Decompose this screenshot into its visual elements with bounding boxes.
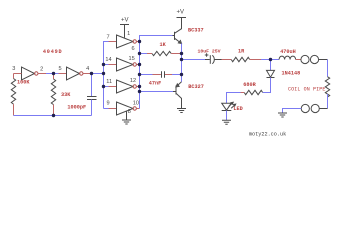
svg-text:+V: +V (121, 18, 129, 24)
svg-text:BC327: BC327 (188, 84, 204, 90)
svg-text:4049D: 4049D (43, 49, 63, 55)
svg-text:680R: 680R (243, 82, 256, 88)
svg-text:6: 6 (131, 46, 134, 52)
svg-text:BC337: BC337 (188, 28, 204, 34)
svg-text:10: 10 (133, 100, 139, 106)
svg-text:8: 8 (128, 109, 131, 115)
svg-text:10uF 25V: 10uF 25V (198, 48, 221, 54)
svg-text:1R: 1R (238, 48, 245, 54)
svg-text:LED: LED (233, 106, 242, 112)
svg-text:1K: 1K (160, 42, 167, 48)
svg-text:11: 11 (106, 79, 112, 85)
svg-text:5: 5 (58, 66, 61, 72)
svg-text:+V: +V (177, 10, 185, 16)
svg-text:1000pF: 1000pF (67, 105, 86, 111)
svg-text:4: 4 (86, 66, 89, 72)
svg-text:33K: 33K (61, 92, 71, 98)
svg-text:2: 2 (40, 66, 43, 72)
svg-text:3: 3 (12, 66, 15, 72)
svg-text:moty22.co.uk: moty22.co.uk (249, 131, 286, 137)
svg-text:100K: 100K (17, 80, 30, 86)
svg-text:470uH: 470uH (280, 49, 296, 55)
svg-text:15: 15 (128, 56, 134, 62)
svg-text:COIL ON PIPE: COIL ON PIPE (288, 87, 325, 93)
svg-text:1: 1 (127, 31, 130, 37)
svg-text:7: 7 (106, 34, 109, 40)
svg-text:47nF: 47nF (149, 81, 161, 87)
svg-text:12: 12 (130, 78, 136, 84)
svg-text:1N4148: 1N4148 (282, 71, 301, 77)
svg-text:9: 9 (106, 101, 109, 107)
svg-text:14: 14 (105, 57, 111, 63)
